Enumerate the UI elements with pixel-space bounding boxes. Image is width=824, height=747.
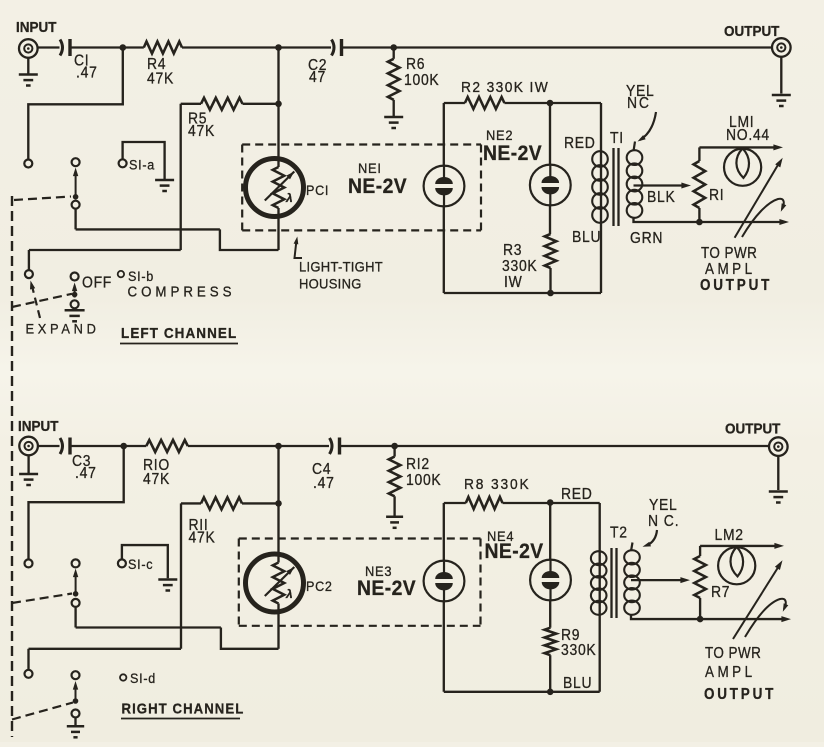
svg-text:COMPRESS: COMPRESS [128, 283, 236, 300]
svg-text:SI-c: SI-c [128, 556, 153, 572]
svg-text:GRN: GRN [630, 230, 663, 247]
svg-text:IW: IW [504, 274, 522, 291]
svg-text:NE2: NE2 [486, 128, 513, 144]
svg-text:47K: 47K [188, 123, 215, 140]
svg-text:OUTPUT: OUTPUT [724, 23, 780, 40]
svg-text:R2 330K IW: R2 330K IW [461, 80, 549, 97]
svg-text:λ: λ [285, 587, 293, 601]
svg-text:100K: 100K [404, 72, 439, 89]
svg-text:TO PWR: TO PWR [701, 245, 757, 262]
svg-text:λ: λ [285, 191, 293, 205]
svg-text:BLU: BLU [572, 229, 601, 246]
svg-text:NE-2V: NE-2V [357, 577, 416, 600]
svg-text:YEL: YEL [649, 497, 678, 514]
svg-text:.47: .47 [75, 465, 97, 482]
svg-text:NE-2V: NE-2V [485, 540, 544, 563]
svg-text:R8 330K: R8 330K [464, 477, 531, 494]
svg-text:OUTPUT: OUTPUT [725, 421, 781, 438]
svg-text:SI-b: SI-b [128, 268, 154, 284]
svg-text:OFF: OFF [82, 275, 112, 292]
svg-text:R6: R6 [406, 56, 425, 73]
svg-text:.47: .47 [313, 475, 335, 492]
svg-text:T2: T2 [610, 525, 628, 542]
svg-text:EXPAND: EXPAND [26, 321, 100, 337]
svg-text:INPUT: INPUT [18, 418, 59, 435]
svg-text:SI-a: SI-a [129, 157, 155, 173]
svg-text:OUTPUT: OUTPUT [700, 277, 772, 294]
svg-text:NEI: NEI [358, 161, 382, 177]
svg-text:LEFT CHANNEL: LEFT CHANNEL [121, 325, 237, 342]
svg-text:RI: RI [709, 187, 724, 204]
svg-text:47K: 47K [147, 71, 174, 88]
svg-text:AMPL: AMPL [705, 664, 756, 681]
svg-text:47: 47 [309, 69, 326, 86]
svg-text:N C.: N C. [648, 513, 679, 530]
svg-text:R7: R7 [711, 584, 730, 601]
svg-text:RI2: RI2 [406, 456, 430, 473]
svg-text:LM2: LM2 [715, 527, 744, 544]
svg-text:NC: NC [627, 95, 651, 112]
svg-text:AMPL: AMPL [705, 261, 756, 278]
svg-text:R3: R3 [503, 242, 522, 259]
svg-text:NO.44: NO.44 [726, 127, 770, 144]
svg-text:OUTPUT: OUTPUT [704, 686, 776, 703]
svg-text:PCI: PCI [306, 182, 329, 198]
svg-text:TI: TI [610, 130, 624, 147]
svg-text:47K: 47K [143, 471, 170, 488]
svg-text:RIGHT CHANNEL: RIGHT CHANNEL [122, 700, 245, 717]
svg-text:SI-d: SI-d [130, 670, 156, 686]
svg-text:HOUSING: HOUSING [299, 276, 362, 292]
svg-text:47K: 47K [189, 530, 216, 547]
svg-text:NE-2V: NE-2V [483, 142, 542, 165]
svg-text:NE-2V: NE-2V [348, 175, 407, 198]
svg-text:BLK: BLK [647, 189, 676, 206]
svg-text:RED: RED [564, 135, 596, 152]
svg-text:TO PWR: TO PWR [705, 645, 761, 662]
svg-text:330K: 330K [561, 642, 596, 659]
svg-text:RED: RED [561, 486, 593, 503]
svg-text:BLU: BLU [563, 675, 592, 692]
svg-text:330K: 330K [502, 258, 537, 275]
svg-text:PC2: PC2 [306, 578, 333, 594]
svg-text:LIGHT-TIGHT: LIGHT-TIGHT [299, 259, 383, 275]
svg-text:.47: .47 [76, 65, 98, 82]
svg-text:INPUT: INPUT [16, 19, 57, 36]
svg-text:100K: 100K [406, 472, 441, 489]
